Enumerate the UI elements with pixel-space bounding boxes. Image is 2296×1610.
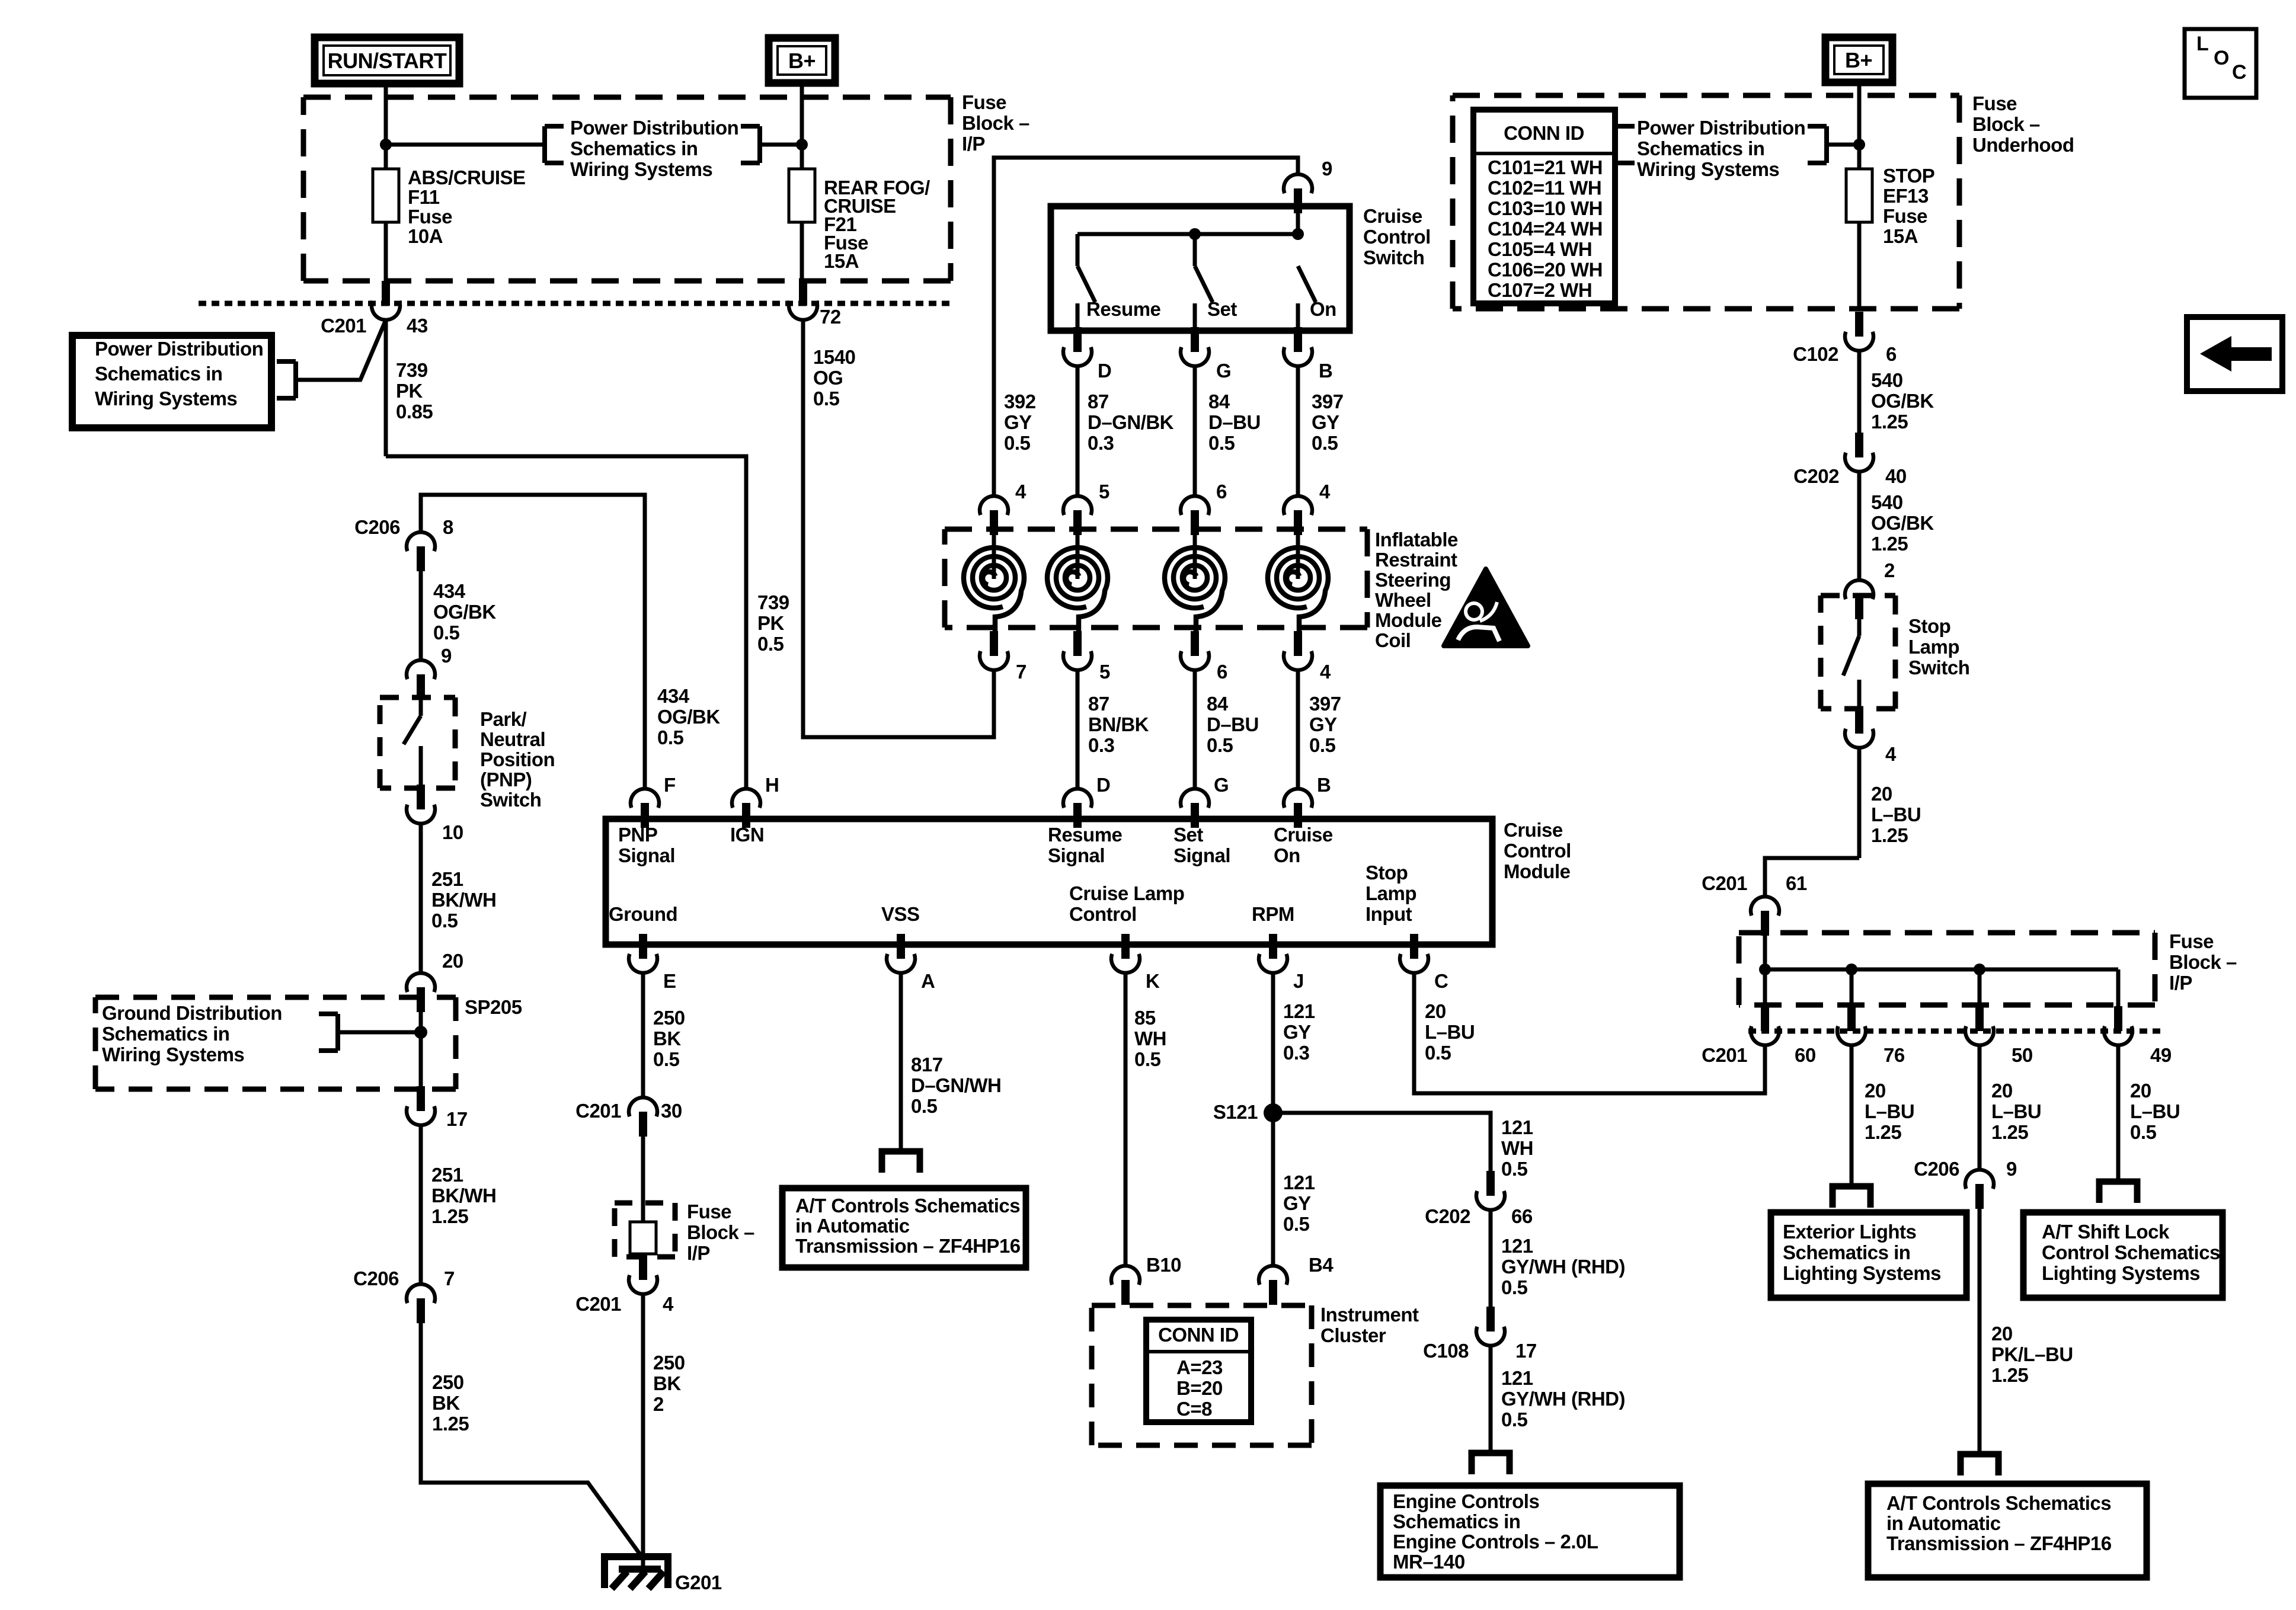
CONN ID table (cluster) <box>1146 1320 1251 1422</box>
svg-text:0.5: 0.5 <box>1501 1409 1528 1430</box>
svg-text:4: 4 <box>1015 481 1027 502</box>
svg-text:I/P: I/P <box>2169 972 2192 994</box>
svg-text:B: B <box>1319 360 1332 382</box>
svg-text:OG/BK: OG/BK <box>1871 390 1934 412</box>
svg-text:85: 85 <box>1134 1007 1156 1029</box>
svg-text:2: 2 <box>653 1393 664 1415</box>
wire pin9 into bus <box>1296 209 1300 234</box>
label coil bottom pin 5 col2 <box>1099 661 1110 683</box>
svg-text:Transmission – ZF4HP16: Transmission – ZF4HP16 <box>795 1235 1021 1257</box>
label wire 434 OG/BK 0.5 (PNP) <box>433 580 496 644</box>
svg-text:C201: C201 <box>1702 1044 1747 1066</box>
label B4 <box>1309 1254 1334 1276</box>
svg-text:SP205: SP205 <box>465 996 522 1018</box>
connector coil top pin 6 col3 <box>1181 496 1209 535</box>
svg-text:61: 61 <box>1786 872 1807 894</box>
svg-text:Coil: Coil <box>1375 629 1411 651</box>
label pin name IGN <box>730 824 764 846</box>
svg-text:Cruise: Cruise <box>1363 205 1422 227</box>
svg-text:1540: 1540 <box>813 346 855 368</box>
label wire 20 L-BU 0.5 (49) <box>2130 1080 2180 1143</box>
label C201 (43) <box>321 315 366 337</box>
svg-text:1.25: 1.25 <box>1991 1121 2028 1143</box>
node bus dot 60 <box>1759 964 1771 975</box>
svg-text:BK: BK <box>653 1028 681 1049</box>
svg-text:Module: Module <box>1375 609 1442 631</box>
svg-text:Control: Control <box>1363 226 1431 248</box>
svg-text:A: A <box>921 970 935 992</box>
wire bracket to splice <box>338 1030 421 1035</box>
label pin 7 <box>444 1267 455 1289</box>
svg-text:30: 30 <box>661 1100 682 1122</box>
label wire 20 L-BU 1.25 (76) <box>1865 1080 1914 1143</box>
svg-text:5: 5 <box>1099 481 1109 502</box>
wire C201-43 down <box>384 320 388 456</box>
connector C201-50 <box>1965 1006 1994 1045</box>
connector C102-6 <box>1845 312 1873 351</box>
connector B4 <box>1259 1266 1287 1305</box>
svg-text:A/T Controls Schematics: A/T Controls Schematics <box>1886 1492 2111 1514</box>
svg-text:15A: 15A <box>1883 225 1918 247</box>
label G201 <box>675 1571 722 1593</box>
fuse block I/P dashed box (lower right) <box>1739 933 2155 1005</box>
svg-text:C201: C201 <box>575 1100 621 1122</box>
wire B to coil <box>1296 366 1300 496</box>
bracket left of PD right text <box>1616 126 1635 163</box>
label Fuse Block - I/P <box>962 91 1029 155</box>
svg-text:GY: GY <box>1312 411 1339 433</box>
label pin name Ground <box>609 903 677 925</box>
arrow box <box>2187 317 2282 391</box>
connector module bottom pin E <box>629 934 657 973</box>
connector C206-8 <box>407 532 435 571</box>
connector cruise pin B <box>1284 327 1312 366</box>
label pin 66 <box>1511 1205 1533 1227</box>
label module pin F <box>664 774 676 796</box>
wire branch to Power Distribution bracket <box>386 143 542 147</box>
svg-text:Engine Controls: Engine Controls <box>1393 1490 1539 1512</box>
bracket left of Power Distribution text <box>545 126 564 163</box>
svg-text:0.3: 0.3 <box>1088 734 1115 756</box>
svg-text:Schematics in: Schematics in <box>95 363 222 385</box>
label C201 (61) <box>1702 872 1747 894</box>
svg-text:STOP: STOP <box>1883 165 1934 187</box>
coil spiral col2 <box>1047 535 1108 632</box>
wire SP205 to C206-7 <box>419 1125 423 1284</box>
label Fuse Block I/P (small) <box>687 1201 754 1264</box>
svg-text:MR–140: MR–140 <box>1393 1551 1465 1573</box>
label C206 (8) <box>354 516 400 538</box>
svg-text:1.25: 1.25 <box>1991 1364 2028 1386</box>
wire switch bus <box>1077 232 1298 236</box>
label coil top pin 4 col4 <box>1319 481 1331 502</box>
label wire 540 OG/BK 1.25 (2) <box>1871 491 1934 555</box>
svg-text:1.25: 1.25 <box>1865 1121 1901 1143</box>
wire bracket to right B+ stem <box>1827 143 1859 147</box>
label PD box text <box>95 338 263 409</box>
label wire 87 D-GN/BK 0.3 <box>1088 391 1174 454</box>
svg-text:392: 392 <box>1004 391 1036 412</box>
stop lamp switch dashed box <box>1821 596 1895 709</box>
wire C jog to fuse block <box>1414 973 1765 1093</box>
wire D to coil <box>1076 366 1080 496</box>
switch Set <box>1195 234 1213 331</box>
label wire 87 BN/BK 0.3 <box>1088 693 1149 756</box>
svg-text:C101=21 WH: C101=21 WH <box>1488 156 1603 178</box>
label pin 61 <box>1786 872 1807 894</box>
connector C108-17 <box>1476 1307 1505 1346</box>
dotted connector row C201 (left) <box>199 301 954 306</box>
label wire 85 WH 0.5 <box>1134 1007 1166 1070</box>
label wire 121 GY/WH (RHD) 0.5 (lower) <box>1501 1367 1625 1430</box>
svg-text:397: 397 <box>1312 391 1344 412</box>
box Power Distribution Schematics (lower left) <box>72 335 271 428</box>
label pin name Set Signal <box>1173 824 1230 866</box>
label module pin B <box>1317 774 1331 796</box>
svg-text:76: 76 <box>1884 1044 1905 1066</box>
svg-text:0.5: 0.5 <box>1309 734 1336 756</box>
connector stop lamp exit pin 4 <box>1845 709 1873 748</box>
svg-text:15A: 15A <box>824 250 859 272</box>
svg-text:Resume: Resume <box>1048 824 1123 846</box>
svg-text:20: 20 <box>2130 1080 2151 1102</box>
terminal exterior lights <box>1833 1186 1870 1208</box>
label pin 17 (C108) <box>1515 1340 1537 1362</box>
svg-text:B=20: B=20 <box>1176 1377 1223 1399</box>
svg-text:On: On <box>1274 844 1300 866</box>
svg-text:4: 4 <box>1320 661 1331 683</box>
label wire 1540 OG 0.5 <box>813 346 855 409</box>
svg-text:GY/WH (RHD): GY/WH (RHD) <box>1501 1256 1625 1278</box>
label Park/Neutral Position (PNP) Switch <box>480 708 555 811</box>
connector SP205 exit pin 17 <box>407 1086 435 1125</box>
svg-text:J: J <box>1293 970 1304 992</box>
label Stop Lamp Switch <box>1908 615 1969 678</box>
svg-text:B4: B4 <box>1309 1254 1334 1276</box>
svg-text:WH: WH <box>1501 1137 1533 1159</box>
label pin 76 <box>1884 1044 1905 1066</box>
svg-text:Fuse: Fuse <box>687 1201 731 1222</box>
label pin 50 <box>2012 1044 2033 1066</box>
svg-text:Stop: Stop <box>1366 862 1408 884</box>
label module pin H <box>765 774 779 796</box>
svg-text:G: G <box>1214 774 1229 796</box>
wire E down <box>641 973 645 1097</box>
svg-text:L: L <box>2196 33 2208 55</box>
svg-text:0.5: 0.5 <box>2130 1121 2157 1143</box>
label pin 43 <box>407 315 428 337</box>
svg-text:A/T Shift Lock: A/T Shift Lock <box>2042 1221 2170 1243</box>
svg-text:C105=4 WH: C105=4 WH <box>1488 238 1592 260</box>
svg-text:B+: B+ <box>788 49 816 73</box>
svg-text:Block –: Block – <box>2169 951 2237 973</box>
label pin B <box>1319 360 1332 382</box>
wire PNP to SP205 <box>419 824 423 973</box>
connector coil bottom pin 6 col3 <box>1181 631 1209 670</box>
svg-text:0.5: 0.5 <box>1425 1042 1451 1064</box>
svg-text:817: 817 <box>911 1054 943 1076</box>
fuse block underhood dashed box <box>1453 95 1959 309</box>
svg-text:K: K <box>1146 970 1160 992</box>
svg-text:Lighting Systems: Lighting Systems <box>2042 1262 2200 1284</box>
svg-text:OG/BK: OG/BK <box>1871 512 1934 534</box>
label wire 20 L-BU 1.25 (50) <box>1991 1080 2041 1143</box>
label coil bottom pin 7 col1 <box>1016 661 1027 683</box>
label wire 251 BK/WH 1.25 <box>431 1164 496 1227</box>
connector C201-76 <box>1837 1006 1866 1045</box>
svg-text:PK/L–BU: PK/L–BU <box>1991 1343 2073 1365</box>
node junction on B+ stem <box>796 139 808 151</box>
terminal B+ (right) <box>1825 37 1892 82</box>
svg-text:GY: GY <box>1283 1192 1311 1214</box>
svg-text:GY: GY <box>1004 411 1032 433</box>
node bus dot 50 <box>1974 964 1985 975</box>
svg-text:B+: B+ <box>1845 48 1872 72</box>
connector PNP pin 9 <box>407 660 435 699</box>
svg-text:0.5: 0.5 <box>813 388 840 409</box>
svg-text:20: 20 <box>1425 1000 1446 1022</box>
svg-text:G201: G201 <box>675 1571 722 1593</box>
wire B+ stem <box>800 83 804 169</box>
svg-text:Power Distribution: Power Distribution <box>95 338 263 360</box>
connector pin 9 (cruise switch) <box>1284 174 1312 213</box>
svg-text:Position: Position <box>480 748 555 770</box>
svg-text:250: 250 <box>432 1371 464 1393</box>
svg-text:Block –: Block – <box>1972 113 2040 135</box>
dashed box Ground Distribution SP205 <box>95 997 456 1089</box>
svg-text:L–BU: L–BU <box>2130 1100 2180 1122</box>
terminal engine controls <box>1472 1453 1510 1474</box>
svg-text:GY: GY <box>1283 1021 1311 1043</box>
connector coil top pin 4 col4 <box>1284 496 1312 535</box>
svg-text:in Automatic: in Automatic <box>795 1215 910 1237</box>
LOC corner box <box>2185 29 2256 98</box>
wire F11 to fuse block edge <box>384 222 388 281</box>
svg-text:0.5: 0.5 <box>1283 1213 1310 1235</box>
node bus dot 76 <box>1846 964 1857 975</box>
label Exterior Lights text <box>1783 1221 1941 1284</box>
node junction right B+ <box>1853 139 1865 151</box>
connector module top pin D <box>1063 789 1092 828</box>
node splice S121 <box>1264 1103 1283 1122</box>
svg-text:L–BU: L–BU <box>1991 1100 2041 1122</box>
node bus dot Set <box>1189 228 1201 240</box>
svg-text:A/T Controls Schematics: A/T Controls Schematics <box>795 1195 1020 1217</box>
svg-text:Schematics in: Schematics in <box>1783 1241 1910 1263</box>
svg-text:0.5: 0.5 <box>1134 1048 1161 1070</box>
label pin 20 <box>442 950 463 972</box>
label C206 (9) <box>1914 1158 1959 1180</box>
label pin D <box>1098 360 1111 382</box>
svg-text:121: 121 <box>1283 1172 1315 1193</box>
label C108 (17) <box>1423 1340 1469 1362</box>
svg-text:Resume: Resume <box>1086 298 1161 320</box>
fuse in small I/P box <box>630 1203 656 1257</box>
svg-text:EF13: EF13 <box>1883 185 1929 207</box>
connector coil bottom pin 7 col1 <box>980 631 1008 670</box>
wire A down <box>899 973 903 1151</box>
wire stop lamp down <box>1857 748 1862 858</box>
connector module bottom pin J <box>1259 934 1287 973</box>
connector stop lamp entry pin 2 <box>1845 580 1873 619</box>
svg-text:Input: Input <box>1366 903 1412 925</box>
svg-text:C104=24 WH: C104=24 WH <box>1488 218 1603 240</box>
svg-text:Fuse: Fuse <box>2169 930 2214 952</box>
wire 76 down <box>1850 1045 1854 1186</box>
CONN ID table (underhood) <box>1473 110 1615 303</box>
label B10 <box>1146 1254 1181 1276</box>
label Inflatable Restraint Steering Wheel Module Coil <box>1375 529 1458 651</box>
label pin name Stop Lamp Input <box>1366 862 1416 925</box>
label wire 739 PK 0.5 <box>757 591 789 655</box>
svg-text:C201: C201 <box>321 315 366 337</box>
connector module top pin F <box>631 789 659 828</box>
svg-text:L–BU: L–BU <box>1865 1100 1914 1122</box>
svg-text:17: 17 <box>1515 1340 1537 1362</box>
PNP switch dashed box <box>380 697 455 788</box>
svg-text:D–GN/BK: D–GN/BK <box>1088 411 1174 433</box>
label fuse F11 <box>408 167 526 247</box>
svg-text:C103=10 WH: C103=10 WH <box>1488 197 1603 219</box>
label wire 817 D-GN/WH 0.5 <box>911 1054 1001 1117</box>
svg-text:O: O <box>2214 47 2229 69</box>
label wire 540 OG/BK 1.25 (1) <box>1871 369 1934 433</box>
connector coil top pin 4 col1 <box>980 496 1008 535</box>
svg-text:0.5: 0.5 <box>1312 432 1338 454</box>
svg-text:Control Schematics: Control Schematics <box>2042 1241 2220 1263</box>
wire switch supply top <box>994 158 1298 496</box>
label A/T Shift Lock text <box>2042 1221 2220 1284</box>
bus wire in fuse block <box>1765 968 2118 972</box>
svg-text:4: 4 <box>1885 743 1897 765</box>
label fuse F21 <box>824 177 930 272</box>
svg-text:6: 6 <box>1217 661 1227 683</box>
terminal A/T controls (right) <box>1961 1454 1998 1475</box>
wire bus drop 49 <box>2116 969 2121 1006</box>
svg-text:D: D <box>1098 360 1111 382</box>
label C102 (6) <box>1793 343 1838 365</box>
svg-text:S121: S121 <box>1213 1101 1258 1123</box>
box A/T Shift Lock Control <box>2023 1212 2223 1298</box>
terminal A/T shift lock <box>2099 1182 2137 1203</box>
svg-text:540: 540 <box>1871 369 1903 391</box>
label pin 60 <box>1795 1044 1816 1066</box>
svg-text:4: 4 <box>1319 481 1331 502</box>
wire 49 down <box>2116 1045 2121 1182</box>
svg-text:20: 20 <box>1991 1323 2013 1345</box>
node bus dot On <box>1292 228 1304 240</box>
stop lamp switch blade <box>1843 619 1859 709</box>
svg-text:66: 66 <box>1511 1205 1533 1227</box>
label pin 40 <box>1885 465 1907 487</box>
coil spiral col1 <box>964 535 1024 632</box>
wire RUN/START stem <box>384 84 388 169</box>
connector coil top pin 5 col2 <box>1063 496 1092 535</box>
label wire 434 OG/BK 0.5 (to F) <box>657 685 720 748</box>
svg-text:Signal: Signal <box>1173 844 1230 866</box>
svg-text:10: 10 <box>442 821 463 843</box>
svg-text:On: On <box>1310 298 1336 320</box>
svg-text:CONN ID: CONN ID <box>1158 1324 1239 1346</box>
svg-text:Transmission – ZF4HP16: Transmission – ZF4HP16 <box>1886 1532 2112 1554</box>
connector C201-4 <box>629 1255 657 1294</box>
label wire 20 L-BU 1.25 (stop) <box>1871 783 1921 846</box>
svg-text:I/P: I/P <box>962 133 985 155</box>
label pin 30 <box>661 1100 682 1122</box>
svg-text:0.5: 0.5 <box>431 910 458 932</box>
svg-text:C102: C102 <box>1793 343 1838 365</box>
label coil bottom pin 6 col3 <box>1217 661 1227 683</box>
svg-text:Switch: Switch <box>1363 247 1424 268</box>
switch Resume <box>1077 234 1095 331</box>
svg-text:121: 121 <box>1283 1000 1315 1022</box>
terminal RUN/START <box>315 37 459 84</box>
connector C201-43 <box>372 281 400 320</box>
label pin 6 <box>1886 343 1897 365</box>
svg-text:Neutral: Neutral <box>480 728 545 750</box>
svg-text:60: 60 <box>1795 1044 1816 1066</box>
PNP switch blade <box>404 699 421 788</box>
label pin G <box>1216 360 1231 382</box>
connector C201-60 <box>1751 1006 1779 1045</box>
svg-text:87: 87 <box>1088 693 1109 715</box>
wire C206-8 down <box>419 571 423 660</box>
svg-text:WH: WH <box>1134 1028 1166 1049</box>
svg-text:250: 250 <box>653 1352 685 1374</box>
connector module top pin H <box>732 789 760 828</box>
svg-text:8: 8 <box>443 516 453 538</box>
svg-text:43: 43 <box>407 315 428 337</box>
svg-text:Fuse: Fuse <box>408 206 452 228</box>
ground G201 <box>605 1557 668 1589</box>
svg-text:0.5: 0.5 <box>433 622 460 644</box>
label wire 121 WH 0.5 <box>1501 1116 1533 1180</box>
svg-text:C202: C202 <box>1425 1205 1470 1227</box>
wire C201-61 into box <box>1763 936 1767 969</box>
wire coil to module D <box>1076 670 1080 789</box>
svg-text:H: H <box>765 774 779 796</box>
wire bus drop 76 <box>1850 969 1854 1006</box>
box Engine Controls Schematics <box>1380 1486 1680 1577</box>
svg-text:F11: F11 <box>408 186 440 208</box>
svg-text:Schematics in: Schematics in <box>102 1023 229 1045</box>
svg-text:0.5: 0.5 <box>1501 1276 1528 1298</box>
label module pin C <box>1434 970 1448 992</box>
wire through SP205 box <box>419 1012 423 1089</box>
svg-text:C: C <box>1434 970 1448 992</box>
bracket right of Power Distribution text <box>741 126 760 163</box>
label pin 2 <box>1884 559 1895 581</box>
label Power Distribution Schematics in Wiring Systems (top) <box>570 117 738 180</box>
connector C206-7 <box>407 1284 435 1323</box>
label C206 (7) <box>353 1267 399 1289</box>
svg-text:739: 739 <box>757 591 789 613</box>
box A/T Controls Schematics (left) <box>782 1188 1026 1267</box>
svg-text:Cluster: Cluster <box>1320 1324 1386 1346</box>
svg-text:GY/WH (RHD): GY/WH (RHD) <box>1501 1388 1625 1410</box>
label SP205 <box>465 996 522 1018</box>
label coil top pin 4 col1 <box>1015 481 1027 502</box>
coil spiral col3 <box>1165 535 1225 632</box>
label pin name PNP Signal <box>618 824 675 866</box>
wire bus drop 60 <box>1763 969 1767 1006</box>
label wire 397 GY 0.5 <box>1312 391 1344 454</box>
label module pin K <box>1146 970 1160 992</box>
svg-text:GY: GY <box>1309 713 1337 735</box>
svg-text:Instrument: Instrument <box>1320 1304 1419 1326</box>
svg-text:0.5: 0.5 <box>653 1048 680 1070</box>
wire bus drop 50 <box>1978 969 1982 1006</box>
